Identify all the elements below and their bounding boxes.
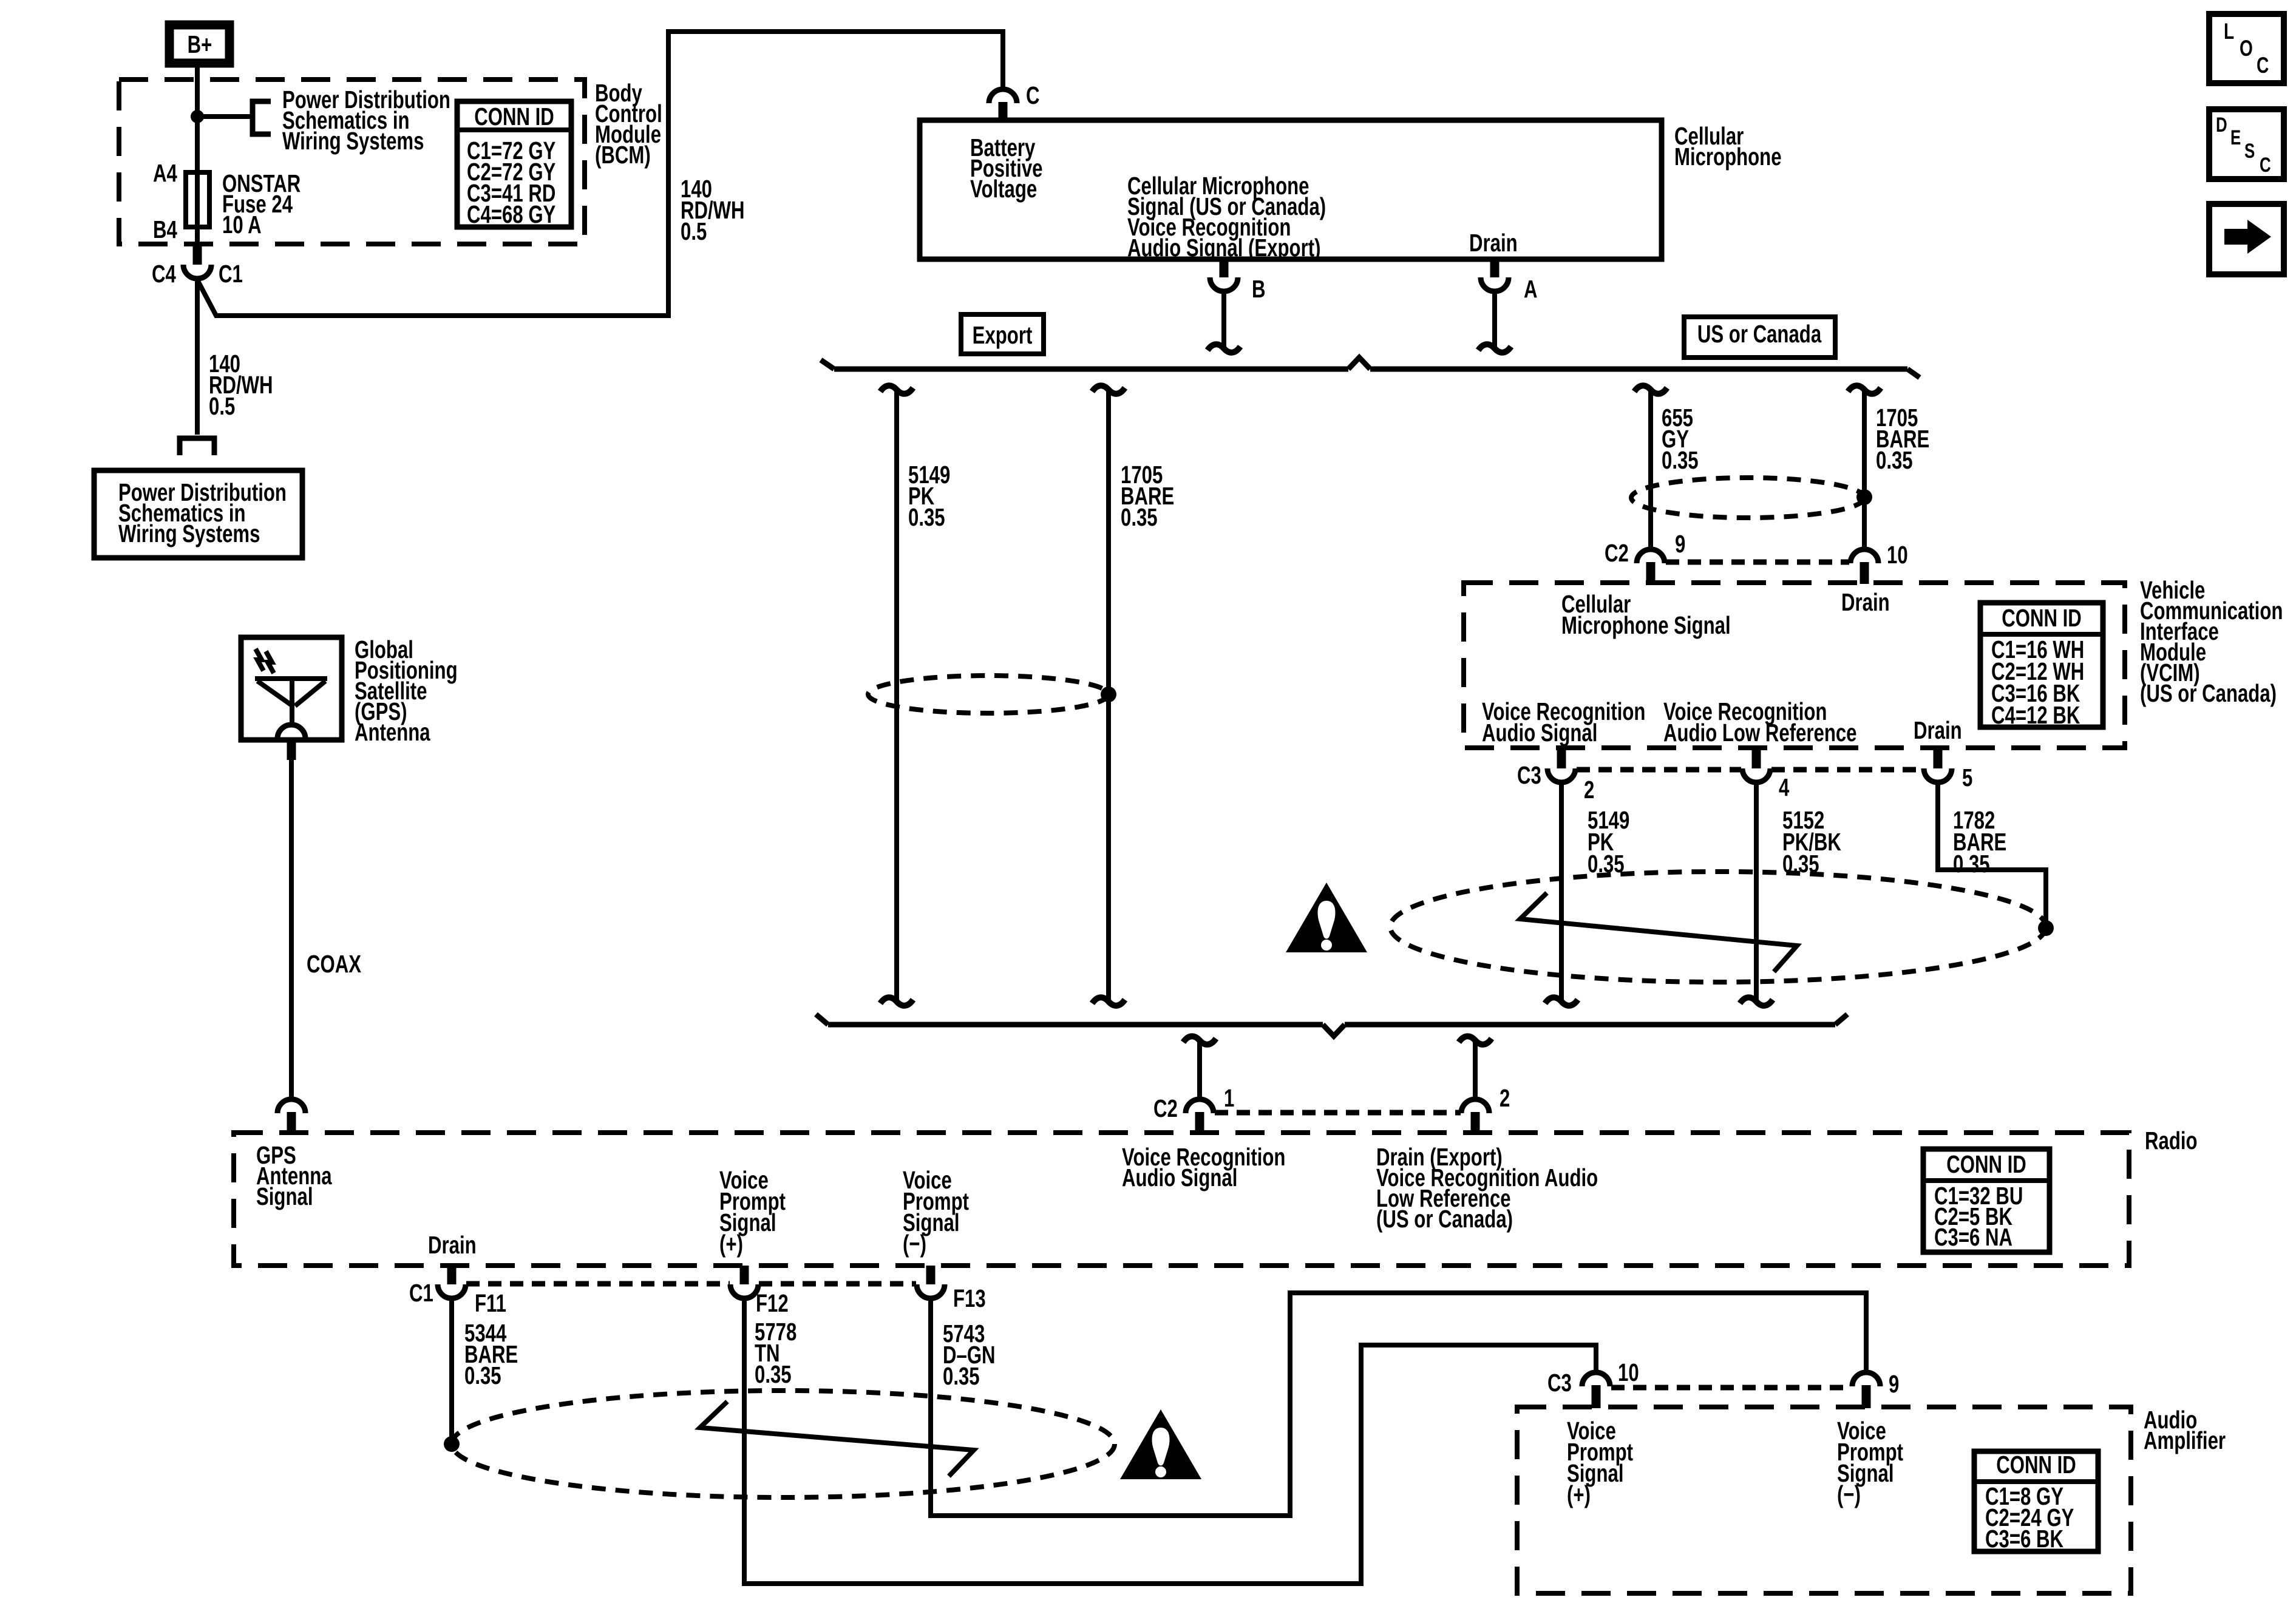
svg-text:C4: C4 [152, 260, 176, 288]
svg-text:(−): (−) [1837, 1480, 1861, 1508]
connector B below cellular microphone [1220, 259, 1229, 277]
svg-text:0.35: 0.35 [1876, 446, 1913, 474]
connector C2 pin 10 into VCIM [1850, 549, 1878, 563]
svg-text:5: 5 [1962, 764, 1972, 792]
GPS antenna symbol [255, 676, 327, 681]
wire COAX [287, 740, 296, 760]
wire to radio C2 pin 1 [1183, 1036, 1216, 1045]
svg-text:C1: C1 [219, 260, 243, 288]
wire 5778 TN 0.35 to amplifier pin 10 [744, 1298, 1596, 1584]
svg-text:C1: C1 [409, 1279, 433, 1307]
arrow glyph [2224, 220, 2271, 254]
shield ellipse (VCIM pair) [1390, 872, 2046, 982]
off-page terminal bracket [180, 438, 214, 455]
CONN ID table (VCIM) [1980, 603, 2103, 727]
off-page bracket: Power Distribution Schematics [253, 101, 271, 134]
connector C3 pin 10 into amplifier [1582, 1372, 1610, 1386]
svg-text:1: 1 [1224, 1084, 1234, 1112]
connector F13 below radio [926, 1266, 936, 1284]
svg-text:(BCM): (BCM) [595, 141, 651, 169]
svg-text:Radio: Radio [2145, 1127, 2198, 1154]
wire B+ to BCM fuse [195, 63, 200, 263]
svg-text:(US or Canada): (US or Canada) [1376, 1205, 1513, 1233]
svg-text:B: B [1252, 275, 1266, 303]
svg-text:0.5: 0.5 [681, 217, 707, 245]
svg-text:Microphone: Microphone [1674, 143, 1782, 171]
svg-text:Antenna: Antenna [355, 718, 430, 746]
svg-text:9: 9 [1889, 1370, 1899, 1398]
node: VCIM shield junction [2038, 920, 2054, 936]
wire to radio C2 pin 2 [1459, 1036, 1492, 1045]
svg-text:F11: F11 [475, 1289, 506, 1317]
svg-text:C2: C2 [1605, 539, 1629, 567]
svg-text:O: O [2240, 35, 2253, 61]
lightning arrows (GPS) [256, 649, 263, 671]
svg-text:B4: B4 [153, 215, 177, 243]
svg-text:0.5: 0.5 [209, 392, 235, 420]
svg-text:Microphone Signal: Microphone Signal [1561, 611, 1731, 639]
wire 5344 BARE 0.35 (GPS drain) [449, 1298, 454, 1439]
dashed connector link 1-2 [1215, 1110, 1461, 1116]
wire BCM C1 to cellular microphone connector C [197, 32, 1003, 316]
svg-text:Audio Signal (Export): Audio Signal (Export) [1127, 234, 1320, 262]
warning symbol (VCIM) [1286, 883, 1367, 952]
svg-text:9: 9 [1675, 530, 1685, 558]
wire 1705 BARE 0.35 (US/Canada drain) [1848, 385, 1881, 394]
svg-text:Drain: Drain [1914, 716, 1962, 744]
svg-text:2: 2 [1584, 776, 1594, 804]
svg-text:(+): (+) [719, 1230, 743, 1258]
warning symbol (radio) [1120, 1409, 1201, 1479]
svg-text:F13: F13 [953, 1284, 986, 1312]
svg-text:(US or Canada): (US or Canada) [2140, 679, 2277, 707]
wire 140 RD/WH 0.5 down to power distribution [195, 279, 200, 435]
svg-text:Drain: Drain [1469, 229, 1518, 257]
wire 5152 PK/BK 0.35 [1754, 782, 1759, 1000]
svg-text:C3: C3 [1547, 1369, 1572, 1397]
svg-text:Audio Signal: Audio Signal [1482, 719, 1597, 747]
svg-text:Audio Low Reference: Audio Low Reference [1663, 719, 1857, 747]
node: B+ branch junction [191, 110, 204, 123]
svg-text:US or Canada: US or Canada [1697, 320, 1822, 348]
connector C1/F11 below radio [447, 1266, 457, 1284]
svg-text:C: C [2260, 154, 2271, 177]
svg-text:C4=12 BK: C4=12 BK [1991, 701, 2080, 729]
connector C2 pin 9 into VCIM [1637, 549, 1665, 563]
CONN ID table (BCM) [457, 101, 571, 227]
wire 5149 PK 0.35 (VCIM voice recognition audio signal) [1559, 782, 1564, 1000]
svg-text:A4: A4 [153, 159, 177, 187]
svg-text:CONN ID: CONN ID [474, 103, 554, 131]
dashed connector link 2-4-5 [1577, 767, 1741, 773]
wire 5149 PK 0.35 (export) [880, 385, 913, 394]
svg-text:C: C [1026, 81, 1040, 109]
wire 1782 BARE 0.35 (VCIM drain) [1938, 782, 2046, 924]
svg-text:Drain: Drain [428, 1231, 477, 1259]
VCIM dashed box [1464, 583, 2125, 748]
bus brace (top) [834, 367, 1348, 372]
node: shield to drain junction [1101, 686, 1116, 702]
icon box arrow [2209, 204, 2284, 274]
svg-text:CONN ID: CONN ID [1946, 1150, 2026, 1178]
CONN ID table (radio) [1923, 1149, 2050, 1252]
svg-text:0.35: 0.35 [908, 503, 945, 531]
icon box DESC [2209, 109, 2284, 179]
svg-text:Voltage: Voltage [970, 175, 1037, 203]
svg-text:10: 10 [1618, 1358, 1639, 1386]
BCM dashed box [119, 80, 585, 244]
svg-text:C3=6 BK: C3=6 BK [1985, 1525, 2063, 1553]
svg-text:Signal: Signal [256, 1182, 313, 1210]
svg-text:Amplifier: Amplifier [2144, 1426, 2226, 1454]
audio amplifier dashed box [1517, 1407, 2131, 1593]
connector C4/C1 at BCM bottom [193, 244, 202, 265]
connector C3 pin 5 below VCIM [1934, 748, 1943, 768]
svg-text:0.35: 0.35 [464, 1361, 501, 1389]
bus brace (bottom) [828, 1022, 1323, 1028]
svg-text:Audio Signal: Audio Signal [1122, 1164, 1237, 1192]
svg-text:Wiring Systems: Wiring Systems [282, 127, 424, 155]
svg-text:CONN ID: CONN ID [1996, 1451, 2076, 1479]
node: shield junction on drain [1856, 489, 1872, 505]
svg-text:0.35: 0.35 [1121, 503, 1158, 531]
svg-text:C3: C3 [1517, 761, 1541, 789]
svg-text:2: 2 [1500, 1084, 1510, 1112]
box: Power Distribution Schematics in Wiring Systems [94, 470, 302, 558]
svg-text:F12: F12 [756, 1289, 789, 1317]
connector C3 pin 9 into amplifier [1852, 1372, 1880, 1386]
fuse: ONSTAR Fuse 24 10A [186, 172, 209, 227]
svg-text:Drain: Drain [1841, 588, 1890, 616]
svg-text:L: L [2224, 18, 2234, 44]
connector C2 pin 1 into radio [1186, 1099, 1214, 1113]
svg-text:S: S [2244, 140, 2255, 163]
svg-text:10: 10 [1887, 541, 1908, 569]
svg-text:Wiring Systems: Wiring Systems [118, 520, 260, 547]
svg-text:C2: C2 [1153, 1094, 1178, 1122]
power feed terminal B+ [169, 25, 229, 63]
svg-text:(−): (−) [903, 1230, 926, 1258]
dashed connector link F11-F12-F13 [466, 1281, 730, 1287]
wire 5743 D-GN 0.35 to amplifier pin 9 [931, 1293, 1866, 1516]
svg-text:CONN ID: CONN ID [2002, 604, 2082, 632]
svg-text:COAX: COAX [307, 950, 361, 978]
svg-text:B+: B+ [188, 30, 212, 58]
svg-text:A: A [1524, 275, 1538, 303]
svg-text:(+): (+) [1567, 1480, 1591, 1508]
svg-text:C4=68 GY: C4=68 GY [467, 200, 555, 228]
tag box: US or Canada [1684, 317, 1835, 358]
wire junction to power-distribution bracket [197, 114, 253, 119]
svg-text:0.35: 0.35 [1662, 446, 1699, 474]
connector C3 pin 2 below VCIM [1557, 748, 1566, 768]
tag box: Export [961, 314, 1044, 354]
connector C into cellular microphone [989, 89, 1017, 103]
svg-text:4: 4 [1779, 773, 1790, 801]
svg-text:C3=6 NA: C3=6 NA [1934, 1223, 2012, 1251]
connector C2 pin 2 into radio [1461, 1099, 1489, 1113]
connector GPS antenna into radio [277, 1099, 305, 1113]
svg-text:0.35: 0.35 [1953, 850, 1990, 878]
svg-text:0.35: 0.35 [943, 1362, 980, 1390]
twisted pair symbol (VCIM) [1520, 893, 1797, 972]
wire 1705 BARE 0.35 (export drain) [1092, 385, 1125, 394]
shield ellipse (export pair) [868, 676, 1109, 713]
connector F12 below radio [740, 1266, 749, 1284]
shield ellipse (US/Canada pair) [1631, 478, 1864, 518]
svg-text:10 A: 10 A [222, 211, 262, 239]
component box: cellular microphone [920, 120, 1662, 259]
radio dashed box [234, 1133, 2129, 1266]
svg-text:E: E [2230, 127, 2241, 149]
shield ellipse (voice prompt pair) [452, 1391, 1115, 1497]
svg-text:0.35: 0.35 [755, 1360, 792, 1388]
node: radio shield junction [444, 1436, 460, 1452]
connector C3 pin 4 below VCIM [1752, 748, 1761, 768]
CONN ID table (amplifier) [1974, 1451, 2098, 1551]
connector A below cellular microphone [1490, 259, 1500, 277]
dashed connector link 10-9 [1611, 1385, 1852, 1391]
dashed connector link 9-10 [1666, 560, 1849, 565]
icon box LOC [2209, 14, 2284, 83]
svg-text:Export: Export [973, 321, 1033, 349]
GPS antenna box [241, 637, 342, 740]
svg-text:C: C [2257, 52, 2269, 78]
wire 655 GY 0.35 [1634, 385, 1667, 394]
twisted pair symbol (radio) [700, 1402, 974, 1476]
svg-text:D: D [2216, 114, 2227, 137]
